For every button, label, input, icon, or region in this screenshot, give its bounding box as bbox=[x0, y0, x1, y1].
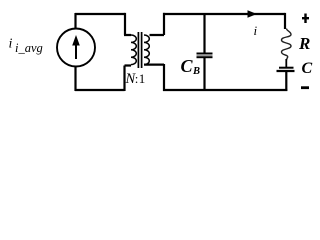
wire load branch top bbox=[284, 13, 286, 29]
wire secondary top stub bbox=[150, 13, 165, 35]
wire capacitor CB branch top bbox=[203, 14, 205, 53]
svg-text:i: i bbox=[254, 23, 258, 38]
resistor R bbox=[282, 29, 292, 62]
wire capacitor C bottom lead bbox=[285, 71, 287, 91]
wire bottom-left rail bbox=[75, 89, 125, 91]
capacitor C top plate bbox=[279, 67, 294, 69]
wire resistor to capacitor bbox=[285, 59, 287, 68]
capacitor CB bbox=[197, 53, 213, 55]
wire top-left rail bbox=[75, 13, 125, 15]
svg-text:C: C bbox=[302, 60, 313, 77]
wire capacitor CB branch bottom bbox=[203, 58, 205, 90]
arrow inside current source bbox=[75, 44, 77, 59]
wire top-right rail bbox=[163, 13, 285, 15]
transformer T1 core bbox=[138, 32, 141, 68]
wire source bottom lead bbox=[74, 67, 76, 92]
svg-text:1: 1 bbox=[139, 71, 146, 86]
wire bottom-right rail bbox=[163, 89, 287, 91]
svg-text:R: R bbox=[298, 34, 310, 53]
transformer T1 secondary winding bbox=[144, 35, 149, 65]
transformer T1 primary winding bbox=[131, 35, 136, 65]
label - terminal bbox=[301, 86, 309, 89]
wire primary top stub bbox=[124, 13, 131, 35]
svg-text:B: B bbox=[192, 66, 200, 77]
wire secondary bottom stub bbox=[144, 64, 164, 91]
label + terminal bbox=[302, 17, 309, 19]
wire primary bottom stub bbox=[125, 66, 132, 92]
current source I1 bbox=[57, 29, 95, 67]
capacitor C bottom plate bbox=[277, 70, 295, 72]
svg-text:i_avg: i_avg bbox=[15, 41, 43, 55]
svg-text:C: C bbox=[181, 56, 194, 76]
svg-text:i: i bbox=[9, 37, 13, 52]
current direction arrow i bbox=[248, 10, 258, 18]
wire source top lead bbox=[74, 13, 76, 29]
